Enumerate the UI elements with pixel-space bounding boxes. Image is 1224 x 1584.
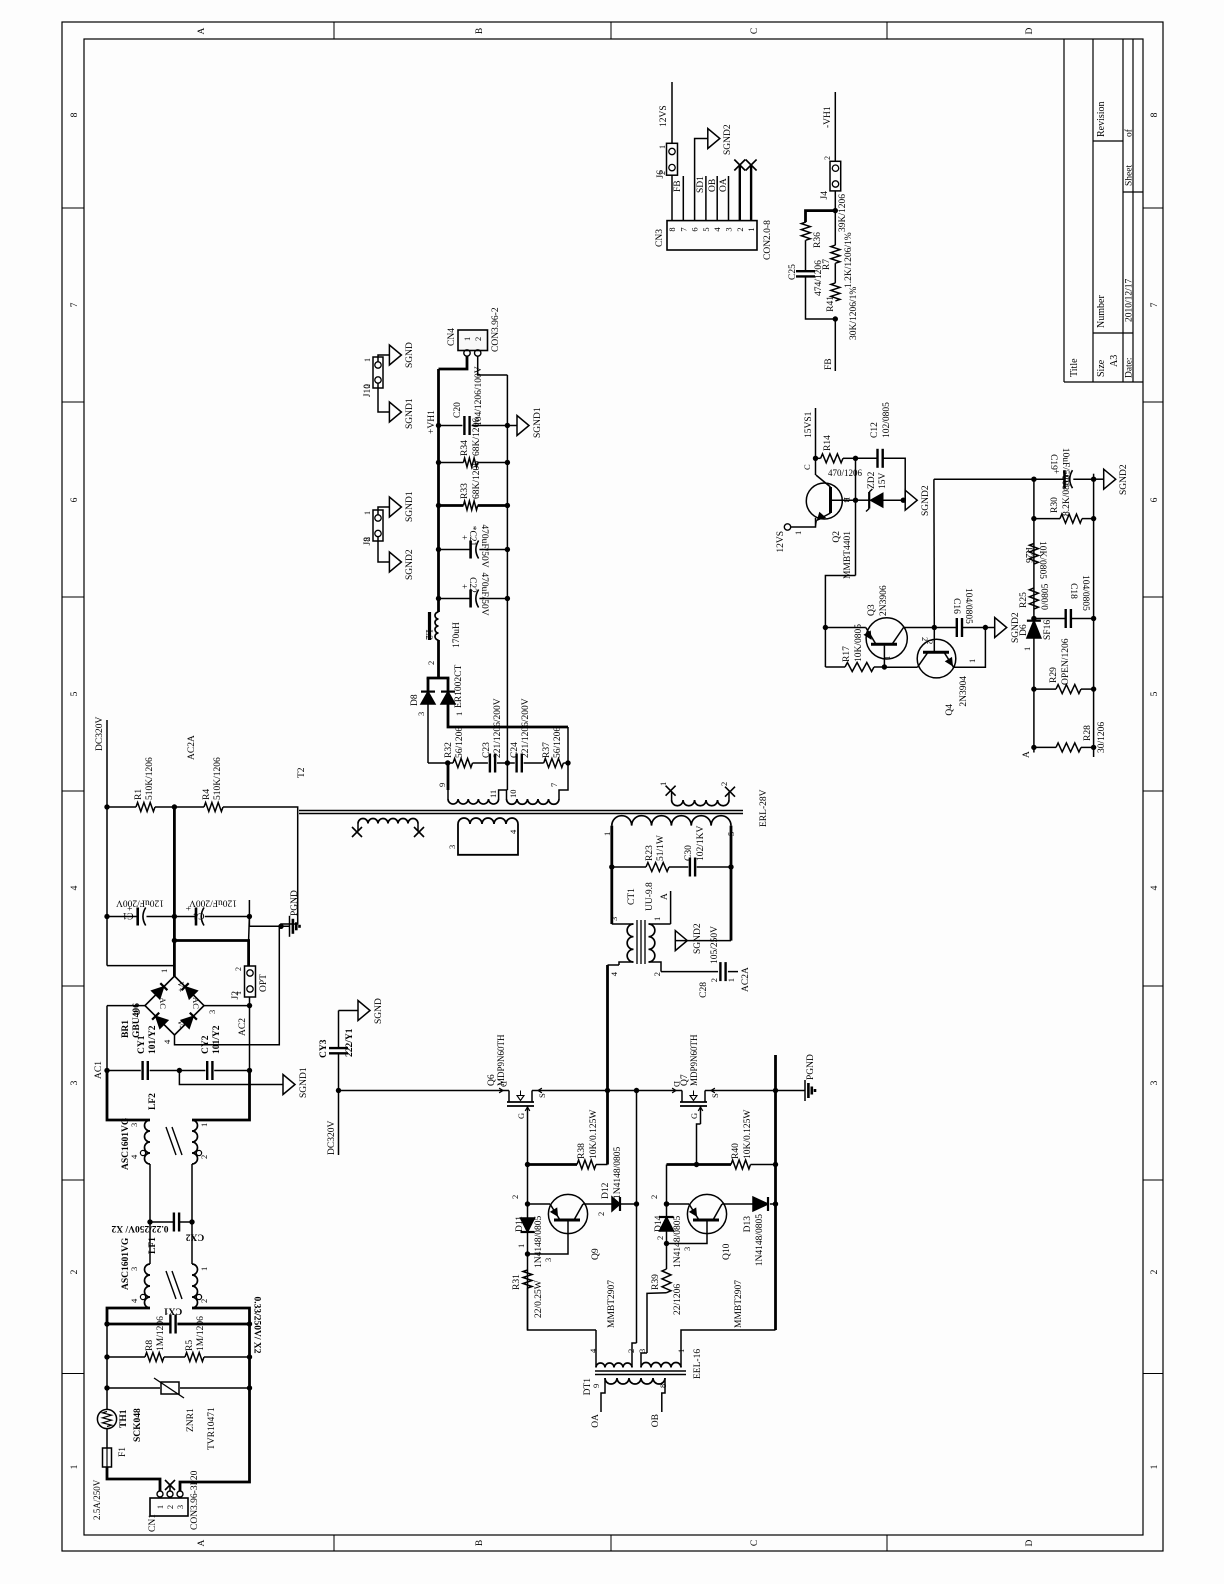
diode D6 SF16 <box>1027 621 1041 638</box>
svg-text:2: 2 <box>510 1195 520 1199</box>
wire Q7 source down to source trunk <box>709 1090 776 1092</box>
diode D11 1N4148/0805 <box>521 1218 535 1232</box>
svg-text:R37: R37 <box>542 742 552 758</box>
+VH1 output rail <box>437 369 440 612</box>
svg-text:R29: R29 <box>1049 667 1059 683</box>
J10 to SGND <box>378 355 389 362</box>
svg-text:1: 1 <box>1150 1464 1160 1469</box>
svg-text:R7: R7 <box>822 259 832 270</box>
svg-text:AC: AC <box>158 997 168 1009</box>
diode D12 1N4148/0805 <box>612 1197 620 1211</box>
svg-text:1: 1 <box>454 712 464 716</box>
capacitor C20 104/1206/100V <box>436 423 441 428</box>
svg-text:J2: J2 <box>231 991 241 1000</box>
ladder top rail node A <box>1033 479 1035 752</box>
svg-text:DC320V: DC320V <box>327 1121 337 1155</box>
svg-text:MDP9N60TH: MDP9N60TH <box>689 1034 699 1086</box>
svg-text:1M/1206: 1M/1206 <box>156 1316 166 1351</box>
svg-text:C19: C19 <box>1048 454 1058 470</box>
wire base node to Q3 block <box>825 576 855 628</box>
svg-text:CN4: CN4 <box>447 328 457 346</box>
svg-text:12VS: 12VS <box>776 531 786 553</box>
svg-text:101/Y2: 101/Y2 <box>212 1025 222 1054</box>
T2 center tap pins 11 10 <box>499 790 507 799</box>
svg-text:8: 8 <box>1150 112 1160 117</box>
svg-text:D14: D14 <box>654 1215 664 1232</box>
svg-text:1: 1 <box>70 1464 80 1469</box>
svg-text:102/0805: 102/0805 <box>882 402 892 438</box>
snubber R23 51/1W <box>609 864 614 869</box>
svg-text:SGND2: SGND2 <box>1119 464 1129 495</box>
svg-text:8: 8 <box>70 112 80 117</box>
svg-text:C24: C24 <box>510 742 520 758</box>
svg-text:CON2.0-8: CON2.0-8 <box>763 220 773 260</box>
svg-text:SGND1: SGND1 <box>299 1067 309 1098</box>
svg-text:R17: R17 <box>842 646 852 662</box>
DT1 pin8 wire OB <box>662 1378 665 1412</box>
current transformer CT1 UU-9.8 <box>636 920 638 964</box>
svg-text:1: 1 <box>882 656 892 660</box>
jumper J6 <box>667 143 678 175</box>
AC top rail <box>106 1322 108 1388</box>
svg-text:SGND2: SGND2 <box>723 124 733 155</box>
svg-text:2: 2 <box>655 1236 665 1240</box>
svg-text:D: D <box>1025 1539 1035 1546</box>
svg-text:6: 6 <box>1150 497 1160 502</box>
svg-text:Sheet: Sheet <box>1125 165 1135 186</box>
jumper J4 <box>830 161 841 191</box>
svg-text:1N4148/0805: 1N4148/0805 <box>755 1214 765 1267</box>
svg-text:2: 2 <box>363 384 372 388</box>
output inductor L2 170uH <box>435 612 438 640</box>
svg-text:SD1: SD1 <box>696 176 706 193</box>
svg-text:7: 7 <box>1150 302 1160 307</box>
svg-text:22/1206: 22/1206 <box>673 1284 683 1315</box>
svg-text:ASC1601VG: ASC1601VG <box>121 1117 131 1170</box>
resistor R34 68K/1206 <box>436 460 441 465</box>
wire source trunk to PGND <box>776 1090 806 1092</box>
svg-text:470uF/50V: 470uF/50V <box>479 524 489 567</box>
svg-text:Size: Size <box>1096 359 1107 377</box>
svg-text:CON3.96-3P20: CON3.96-3P20 <box>190 1470 200 1530</box>
svg-text:2: 2 <box>658 171 667 175</box>
T2 unused winding with X marks <box>358 819 418 824</box>
svg-text:2010/12/17: 2010/12/17 <box>1125 278 1135 322</box>
svg-text:EEL-16: EEL-16 <box>693 1349 703 1379</box>
svg-text:ZD2: ZD2 <box>867 471 877 489</box>
svg-text:7: 7 <box>549 783 559 787</box>
capacitor CX2 0.22/250V X2 <box>150 1221 174 1223</box>
svg-text:AC2A: AC2A <box>741 967 751 992</box>
svg-text:R4: R4 <box>202 789 212 800</box>
svg-text:R39: R39 <box>651 1274 661 1290</box>
svg-text:9: 9 <box>591 1384 601 1388</box>
svg-text:1N4148/0805: 1N4148/0805 <box>613 1147 623 1200</box>
svg-text:SGND: SGND <box>405 342 415 368</box>
AC2A heavy mid wire <box>173 807 176 976</box>
svg-text:4: 4 <box>70 885 80 890</box>
AC bottom rail <box>248 1322 251 1388</box>
jumper J8 SGND1/SGND2 tie <box>373 510 383 541</box>
no-connect X on CN1 pin 2 <box>169 1485 171 1491</box>
wire F1 to TH1 <box>106 1429 108 1448</box>
svg-text:R23: R23 <box>645 845 655 861</box>
wire TH1 to line rail <box>106 1388 108 1409</box>
J10 to SGND1 <box>378 383 389 412</box>
output minus rail <box>506 375 508 790</box>
Q2 base wire <box>831 499 856 501</box>
wire R39 to DT1 pin3 <box>647 1293 667 1353</box>
svg-text:7: 7 <box>70 302 80 307</box>
snubber chain on x=821 <box>428 762 453 764</box>
svg-text:G: G <box>516 1113 526 1119</box>
svg-text:10K/0.125W: 10K/0.125W <box>743 1110 753 1159</box>
svg-text:R36: R36 <box>813 232 823 248</box>
svg-text:56/1206: 56/1206 <box>455 727 465 758</box>
output rectifier D8 ER1002CT <box>421 692 435 704</box>
svg-text:3: 3 <box>416 712 426 716</box>
DT1 pin9 wire OA <box>601 1378 605 1412</box>
svg-text:SCK048: SCK048 <box>133 1408 143 1442</box>
svg-text:102/1KV: 102/1KV <box>696 826 706 862</box>
svg-text:MMBT2907: MMBT2907 <box>734 1280 744 1328</box>
wire AC2 rail to bridge <box>249 1006 251 1071</box>
svg-text:2: 2 <box>426 661 436 665</box>
svg-text:12VS: 12VS <box>659 105 669 127</box>
svg-text:V-: V- <box>176 1020 186 1028</box>
CT1 pin4 wire to midpoint trunk <box>608 964 620 966</box>
svg-text:R31: R31 <box>512 1274 522 1290</box>
svg-text:PGND: PGND <box>806 1054 816 1080</box>
svg-text:+VH1: +VH1 <box>427 410 437 434</box>
jog to LF1 <box>107 1308 150 1322</box>
svg-text:OB: OB <box>651 1414 661 1427</box>
resistor R29 OPEN/1206 <box>1031 686 1036 691</box>
Q3 base wire <box>883 646 885 667</box>
bridge pin2 wire to AC1 <box>107 1005 145 1007</box>
svg-text:C20: C20 <box>453 402 463 418</box>
svg-text:1: 1 <box>967 659 977 663</box>
svg-text:SGND2: SGND2 <box>693 923 703 954</box>
wire Q3 collector to ladder feed <box>934 627 956 629</box>
resistor R33 68K/1206 <box>436 503 441 508</box>
svg-text:222/Y1: 222/Y1 <box>345 1028 355 1057</box>
svg-text:R38: R38 <box>577 1143 587 1159</box>
mosfet Q6 MDP9N60TH <box>505 1090 509 1092</box>
svg-text:OB: OB <box>708 179 718 192</box>
svg-text:4: 4 <box>712 227 722 232</box>
svg-text:2: 2 <box>652 972 662 976</box>
svg-text:Date:: Date: <box>1125 357 1135 378</box>
resistor R25 0/0805 <box>1029 588 1038 609</box>
svg-text:SF16: SF16 <box>1043 620 1053 640</box>
Q7 gate drive line <box>666 1165 668 1218</box>
svg-text:T2: T2 <box>297 767 307 778</box>
svg-text:SGND: SGND <box>374 998 384 1024</box>
npn transistor Q2 MMBT4401 <box>791 518 816 527</box>
svg-text:C4: C4 <box>193 910 204 920</box>
resistor R14 470/1206 <box>813 456 818 461</box>
svg-text:1: 1 <box>155 1505 165 1509</box>
svg-text:MDP9N60TH: MDP9N60TH <box>496 1034 506 1086</box>
svg-text:CX2: CX2 <box>186 1232 205 1242</box>
svg-text:120uF/200V: 120uF/200V <box>189 898 237 908</box>
svg-text:8: 8 <box>658 1384 668 1388</box>
ground SGND1 <box>283 1075 295 1095</box>
svg-text:Title: Title <box>1069 358 1080 377</box>
svg-text:2: 2 <box>596 1212 606 1216</box>
resistor R28 30/1206 <box>1031 745 1036 750</box>
Q6 gate wire <box>527 1106 529 1138</box>
capacitor CX1 0.33/250V X2 <box>107 1323 171 1326</box>
svg-text:10: 10 <box>508 790 518 799</box>
svg-text:1: 1 <box>1022 647 1032 651</box>
svg-text:104/0805: 104/0805 <box>1080 575 1090 611</box>
resistor R17 10K/0805 <box>825 666 845 668</box>
capacitor C25 474/1206 <box>796 275 815 277</box>
svg-text:1: 1 <box>462 337 472 341</box>
svg-text:1.2K/1206/1%: 1.2K/1206/1% <box>844 232 854 288</box>
svg-text:C16: C16 <box>951 598 961 614</box>
fuse F1 2.5A/250V <box>103 1448 112 1467</box>
resistor R36 39K/1206 <box>801 222 810 240</box>
svg-text:Q10: Q10 <box>722 1243 732 1260</box>
svg-text:C12: C12 <box>870 422 880 438</box>
svg-text:FB: FB <box>824 358 834 370</box>
svg-text:UU-9.8: UU-9.8 <box>645 882 655 911</box>
svg-text:8.2K/0805: 8.2K/0805 <box>1062 475 1072 516</box>
svg-text:AC: AC <box>191 997 201 1009</box>
svg-text:0/0805: 0/0805 <box>1041 583 1051 610</box>
svg-text:BR1: BR1 <box>121 1020 131 1038</box>
svg-text:CON3.96-2: CON3.96-2 <box>491 307 501 352</box>
svg-text:1: 1 <box>658 782 668 786</box>
DT1 pin1 wire <box>681 1330 776 1368</box>
15VS1 collector line <box>815 408 817 475</box>
svg-text:J4: J4 <box>820 191 830 200</box>
svg-text:R32: R32 <box>444 742 454 758</box>
ground SGND2 ladder <box>1093 474 1095 480</box>
Q10 base wire <box>667 1220 708 1244</box>
CN3 pin5 wire SD1 <box>705 176 707 221</box>
svg-text:51/1W: 51/1W <box>656 835 666 861</box>
title block <box>1063 39 1065 382</box>
pnp transistor Q3 2N3906 <box>825 627 865 629</box>
mosfet Q7 MDP9N60TH <box>678 1090 682 1092</box>
bridge pin3 wire to AC2 <box>204 1005 250 1007</box>
svg-text:Revision: Revision <box>1096 101 1107 137</box>
wire to R17 column <box>824 628 826 668</box>
svg-text:D11: D11 <box>515 1216 525 1232</box>
svg-text:MMBT4401: MMBT4401 <box>843 531 853 579</box>
wire J2 to AC2A jog / C4 bottom <box>248 917 251 941</box>
svg-text:R8: R8 <box>145 1340 155 1351</box>
12VS input pin <box>784 524 790 530</box>
svg-text:2N3904: 2N3904 <box>959 676 969 707</box>
row ticks <box>333 1535 335 1551</box>
svg-text:6: 6 <box>690 227 700 231</box>
svg-text:A: A <box>197 1539 207 1546</box>
wire Q6 source to Q7 drain <box>536 1090 678 1092</box>
svg-text:1: 1 <box>199 1123 209 1127</box>
bridge V+ wire to DC rail <box>107 966 175 976</box>
resistor R37 56/1206 <box>544 759 564 768</box>
svg-text:2: 2 <box>719 782 729 786</box>
snubber C30 102/1KV <box>669 866 688 868</box>
CN3 pin2 no connect <box>739 165 741 221</box>
svg-text:30/1206: 30/1206 <box>1097 722 1107 753</box>
svg-text:CY3: CY3 <box>319 1039 329 1058</box>
wire Q4 base node to ladder <box>933 479 935 627</box>
ground PGND <box>289 916 291 937</box>
ground SGND1 output <box>507 425 517 427</box>
Q9 base wire pin3 <box>528 1220 569 1254</box>
svg-text:R5: R5 <box>185 1340 195 1351</box>
ground SGND <box>339 1010 359 1012</box>
J8 to SGND1 <box>378 507 389 515</box>
T2 primary winding 1-5 <box>612 816 731 826</box>
svg-text:3: 3 <box>70 1080 80 1085</box>
resistor R7 1.2K/1206/1% <box>834 211 836 246</box>
diode D14 1N4148/0805 <box>660 1217 674 1231</box>
Y-capacitor CY2 101/Y2 <box>179 1070 205 1072</box>
svg-text:R1: R1 <box>134 789 144 800</box>
ground SGND2 at primary return <box>675 940 731 942</box>
T2 primary pin1 heavy wire <box>610 826 613 924</box>
svg-text:DC320V: DC320V <box>95 717 105 751</box>
svg-text:S: S <box>710 1093 720 1098</box>
DT1 pin2 wire <box>632 1343 637 1368</box>
svg-text:6: 6 <box>70 497 80 502</box>
svg-text:170uH: 170uH <box>452 622 462 648</box>
connector CN4 CON3.96-2 <box>439 356 468 369</box>
svg-text:G: G <box>689 1113 699 1119</box>
resistor R26 10K/0805 <box>1029 544 1038 565</box>
svg-text:GBU406: GBU406 <box>132 1003 142 1038</box>
CN3 pin1 no connect <box>750 165 752 221</box>
svg-text:C: C <box>750 28 760 34</box>
svg-text:4: 4 <box>162 1039 172 1044</box>
svg-text:104/0805: 104/0805 <box>963 588 973 624</box>
svg-text:510K/1206: 510K/1206 <box>145 757 155 800</box>
svg-text:Q2: Q2 <box>832 531 842 543</box>
svg-text:1N4148/0805: 1N4148/0805 <box>534 1216 544 1269</box>
svg-text:FB: FB <box>673 180 683 192</box>
wire CN1 pin1 to fuse <box>107 1467 160 1491</box>
CT1 pin3 wire to primary trunk <box>612 923 619 925</box>
wire D12 cathode to midpoint trunk and DT1 pin2 <box>636 1091 638 1344</box>
svg-text:1: 1 <box>363 358 372 362</box>
svg-text:SGND1: SGND1 <box>533 407 543 438</box>
svg-text:S: S <box>537 1093 547 1098</box>
svg-text:TH1: TH1 <box>119 1409 129 1428</box>
svg-text:9: 9 <box>437 783 447 787</box>
svg-text:of: of <box>1124 128 1135 137</box>
svg-text:AC2A: AC2A <box>187 735 197 760</box>
svg-text:F1: F1 <box>118 1447 128 1457</box>
svg-text:2: 2 <box>626 1349 636 1353</box>
svg-text:R28: R28 <box>1083 725 1093 741</box>
zener ZD2 15V <box>856 499 871 501</box>
bridge rectifier BR1 GBU406 <box>145 976 204 1035</box>
svg-text:2: 2 <box>649 1195 659 1199</box>
svg-text:C25: C25 <box>788 264 798 280</box>
svg-text:3: 3 <box>1150 1080 1160 1085</box>
svg-text:C22: C22 <box>467 577 477 593</box>
svg-text:39K/1206: 39K/1206 <box>838 194 848 232</box>
svg-text:AC1: AC1 <box>94 1061 104 1079</box>
ladder bottom rail <box>1093 479 1095 757</box>
pnp transistor Q9 MMBT2907 <box>525 1201 530 1206</box>
svg-text:C: C <box>802 464 812 470</box>
svg-text:OA: OA <box>719 178 729 192</box>
svg-text:1: 1 <box>516 1244 526 1248</box>
capacitor C22 470uF/50V <box>436 596 441 601</box>
svg-text:A: A <box>1022 751 1032 758</box>
T2 secondary pin 7 wire <box>559 727 568 799</box>
capacitor C12 102/0805 <box>856 457 878 459</box>
svg-text:CX1: CX1 <box>164 1306 183 1316</box>
CN3 pin8 wire to J6 and 12VS <box>671 175 673 220</box>
capacitor C24 221/1206/200V <box>507 762 514 764</box>
T2 winding 3-4 shield <box>458 818 518 824</box>
svg-text:*C21: *C21 <box>467 526 477 547</box>
svg-text:Q3: Q3 <box>867 604 877 616</box>
svg-text:1: 1 <box>793 531 803 535</box>
svg-text:7: 7 <box>678 227 688 231</box>
svg-text:3: 3 <box>447 845 457 849</box>
svg-text:10K/0805: 10K/0805 <box>1037 541 1047 579</box>
svg-text:LF2: LF2 <box>148 1093 158 1110</box>
resistor R31 22/0.25W <box>523 1270 532 1288</box>
transformer T2 core ERL-28V <box>299 813 743 815</box>
svg-text:Q9: Q9 <box>591 1248 601 1260</box>
svg-text:R26: R26 <box>1023 547 1033 563</box>
svg-text:2: 2 <box>1150 1269 1160 1274</box>
jog from LF2 to CY rails <box>107 1071 150 1121</box>
gate drive transformer DT1 EEL-16 <box>595 1374 686 1376</box>
svg-text:1: 1 <box>363 511 372 515</box>
svg-text:Q4: Q4 <box>945 704 955 716</box>
wire CN1 pin3 down to neutral rail <box>180 1388 250 1491</box>
svg-text:2: 2 <box>735 227 745 231</box>
svg-text:5: 5 <box>70 691 80 696</box>
midpoint trunk heavy wire <box>606 965 609 1165</box>
resistor R30 8.2K/0805 <box>1031 516 1036 521</box>
Y-capacitor CY1 101/Y2 <box>107 1070 141 1072</box>
svg-text:A: A <box>660 893 670 900</box>
svg-text:R14: R14 <box>823 435 833 451</box>
svg-text:V+: V+ <box>176 982 186 993</box>
Q7 gate wire <box>700 1106 702 1124</box>
svg-text:D8: D8 <box>410 694 420 706</box>
connector CN1 <box>150 1498 188 1516</box>
svg-text:3: 3 <box>207 1010 217 1014</box>
svg-text:C: C <box>750 1540 760 1546</box>
svg-text:D: D <box>1025 27 1035 34</box>
capacitor C21 470uF/50V <box>436 547 441 552</box>
svg-text:Number: Number <box>1096 295 1107 328</box>
svg-text:B: B <box>475 1540 485 1546</box>
capacitor C16 104/0805 <box>956 618 958 637</box>
svg-text:SGND1: SGND1 <box>405 398 415 429</box>
gate line to drive network <box>527 1138 529 1330</box>
CN3 pin6 wire to SGND2 <box>695 139 708 221</box>
ground SGND2 at ZD2 <box>903 499 905 501</box>
svg-text:SGND2: SGND2 <box>405 549 415 580</box>
J8 to SGND2 <box>378 537 389 563</box>
svg-text:3: 3 <box>543 1258 553 1262</box>
